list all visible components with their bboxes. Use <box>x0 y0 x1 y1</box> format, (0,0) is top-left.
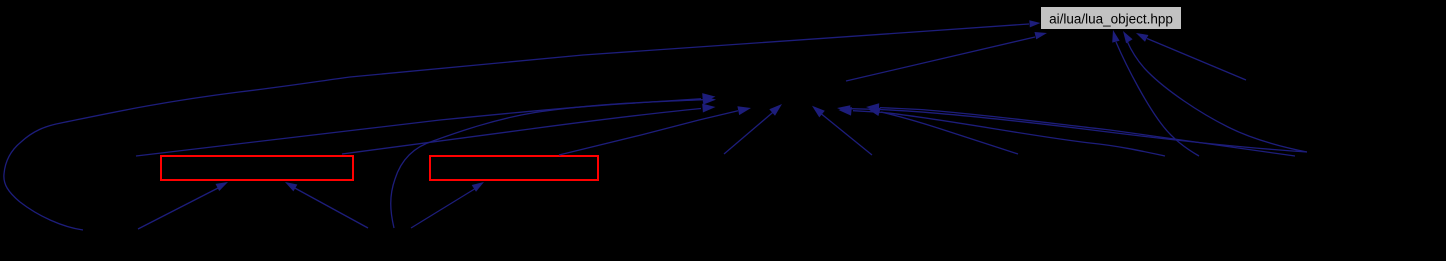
edge: red box 2 to mid cluster arrow <box>559 106 751 155</box>
red node box 1 <box>161 156 353 180</box>
edge: right mid node straight up-left to header box <box>1136 33 1246 80</box>
edge: left node to mid cluster (upper right-arrow) <box>136 93 716 156</box>
edge W: right node shallow line overlapping arrow <box>839 107 1166 156</box>
edge: red box 1 to mid cluster (lower right-arrow) <box>342 104 716 154</box>
edge D: far-right node long shallow line to mid cluster left arrow <box>837 105 1307 152</box>
edge curve B: far-right node up to header box <box>1123 31 1307 152</box>
edge: mid node diagonal up-right to header box <box>846 32 1047 81</box>
edge: bottom-center node to red box 1 (right arrow) <box>285 182 368 228</box>
edge U: right node shallow line to mid cluster second left arrow <box>866 103 1295 156</box>
edge X: right-low node steeper line to mid cluster <box>867 108 1018 154</box>
edge: bottom-center node to red box 2 <box>411 182 484 228</box>
edge: mid-bottom node up-right arrow <box>724 104 782 154</box>
edge: bottom-left node to red box 1 (left arrow) <box>138 182 228 229</box>
red node box 2 <box>430 156 598 180</box>
edge: bottom-center node S-curve to mid cluster <box>391 96 716 228</box>
edge curve A: right node up to header box <box>1112 30 1199 156</box>
edge: mid-bottom node up-left arrow <box>812 106 872 155</box>
node ai/lua/lua_object.hpp (root header box) <box>1041 7 1181 29</box>
svg-text:ai/lua/lua_object.hpp: ai/lua/lua_object.hpp <box>1049 12 1173 27</box>
edge: bottom-left node to header box (big left loop) <box>4 20 1041 230</box>
